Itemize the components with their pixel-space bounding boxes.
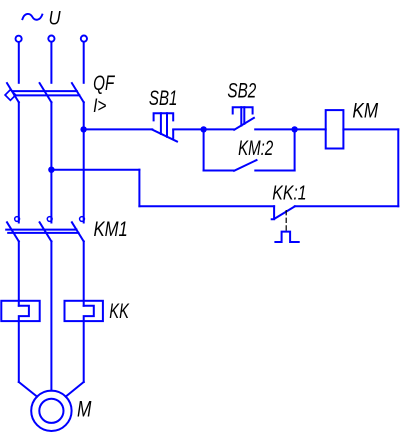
wire phase3 lower bbox=[83, 241, 85, 305]
thermal element KK phase3 heater detour bbox=[84, 306, 94, 382]
wire phase2 mid bbox=[50, 102, 52, 222]
pushbutton SB1 fixed stub bbox=[172, 130, 174, 138]
contactor KM1 linkage bar upper bbox=[6, 229, 76, 231]
contactor KM1 pole2 fixed circle bbox=[47, 217, 52, 222]
pushbutton SB2 blade bbox=[234, 118, 254, 130]
terminal L1 bbox=[16, 36, 22, 42]
wire phase3 top bbox=[83, 42, 85, 83]
wire control return vertical bbox=[138, 170, 140, 207]
svg-text:KM:2: KM:2 bbox=[238, 136, 273, 160]
terminal L2 bbox=[48, 36, 54, 42]
wire phase2 lower bbox=[50, 241, 52, 390]
svg-text:KM: KM bbox=[352, 99, 378, 123]
wire KM:2 branch bottom left bbox=[204, 170, 235, 172]
svg-text:I>: I> bbox=[93, 95, 106, 117]
wire control rung to SB1 bbox=[84, 128, 153, 130]
contact KK:1 blade bbox=[275, 206, 295, 218]
wire SB1 to SB2 bbox=[173, 128, 234, 130]
contactor KM1 linkage bar lower bbox=[8, 232, 78, 234]
wire motor lead left diagonal bbox=[19, 382, 37, 397]
coil KM rectangle bbox=[326, 110, 344, 148]
breaker QF diamond bbox=[5, 90, 16, 101]
pushbutton SB1 cap bbox=[154, 113, 174, 120]
svg-text:KM1: KM1 bbox=[94, 217, 128, 241]
breaker QF linkage bar lower bbox=[14, 94, 79, 96]
svg-text:KK:1: KK:1 bbox=[272, 181, 306, 204]
contact KK:1 fixed drop bbox=[272, 206, 274, 219]
wire bottom right horizontal bbox=[295, 205, 399, 207]
pushbutton SB1 stem left bbox=[160, 113, 162, 134]
pushbutton SB2 cap bbox=[233, 107, 253, 113]
svg-text:U: U bbox=[49, 7, 62, 29]
wire phase2 top bbox=[50, 42, 52, 83]
KK:1 dashed link bbox=[285, 211, 287, 231]
breaker QF linkage bar upper bbox=[13, 90, 77, 92]
breaker QF pole3 blade bbox=[72, 83, 84, 102]
wire SB2 to KM coil bbox=[255, 128, 326, 130]
wire phase1 lower bbox=[18, 241, 20, 305]
pushbutton SB1 blade bbox=[152, 130, 177, 142]
node KM:2 branch right bbox=[291, 126, 297, 132]
pushbutton SB2 stem left bbox=[240, 107, 242, 125]
thermal element KK phase3 box bbox=[65, 301, 103, 321]
wire phase3 mid bbox=[83, 102, 85, 222]
motor M outer circle bbox=[31, 391, 71, 431]
contactor KM1 pole2 blade bbox=[40, 222, 52, 241]
svg-text:M: M bbox=[77, 396, 92, 421]
wire KM:2 branch bottom right bbox=[255, 170, 294, 172]
wire phase1 top bbox=[18, 42, 20, 83]
contactor KM1 pole1 fixed circle bbox=[15, 217, 20, 222]
wire phase1 mid bbox=[18, 102, 20, 222]
KK:1 actuator hat bbox=[275, 232, 298, 242]
wire KM:2 branch right vertical bbox=[294, 129, 296, 170]
svg-text:KK: KK bbox=[109, 299, 130, 323]
terminal L3 bbox=[81, 36, 87, 42]
thermal element KK phase1 box bbox=[1, 301, 39, 321]
contact KM:2 blade bbox=[234, 160, 256, 171]
AC source symbol ~ bbox=[22, 14, 42, 20]
wire KM coil to right bbox=[343, 128, 398, 130]
pushbutton SB2 stem right bbox=[243, 107, 245, 124]
contactor KM1 pole1 blade bbox=[7, 222, 19, 241]
node KM:2 branch left bbox=[200, 126, 206, 132]
motor M inner circle bbox=[39, 399, 63, 423]
svg-text:QF: QF bbox=[93, 72, 115, 95]
wire right side vertical bbox=[397, 129, 399, 206]
wire control return to phase2 bbox=[51, 169, 139, 171]
wire control return left bbox=[139, 205, 274, 207]
wire motor lead right diagonal bbox=[66, 382, 84, 397]
thermal element KK phase1 heater detour bbox=[19, 306, 29, 382]
wire KM:2 branch left vertical bbox=[203, 129, 205, 170]
pushbutton SB1 stem right bbox=[166, 113, 168, 137]
node phase3 control tap bbox=[80, 126, 86, 132]
node phase2 control tap bbox=[48, 167, 54, 173]
svg-text:SB1: SB1 bbox=[149, 86, 178, 110]
svg-text:SB2: SB2 bbox=[227, 79, 256, 103]
contactor KM1 pole3 fixed circle bbox=[80, 217, 85, 222]
breaker QF pole1 blade bbox=[7, 83, 19, 102]
contactor KM1 pole3 blade bbox=[72, 222, 84, 241]
breaker QF pole2 blade bbox=[40, 83, 52, 102]
